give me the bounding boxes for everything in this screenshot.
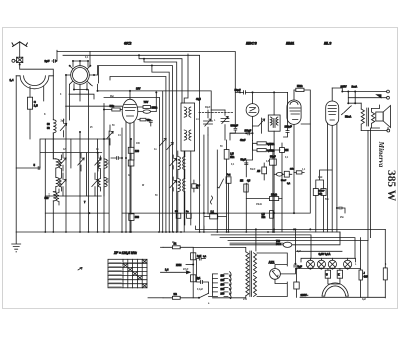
right rails down <box>368 128 371 240</box>
wire left rail <box>15 76 17 232</box>
stepped bus wires <box>274 232 340 240</box>
svg-text:1,5: 1,5 <box>34 104 38 108</box>
svg-text:2pF: 2pF <box>61 121 66 123</box>
band switch lever <box>218 179 224 188</box>
ground bus <box>16 231 274 233</box>
svg-text:0,1μF: 0,1μF <box>197 289 204 291</box>
svg-text:110: 110 <box>221 275 225 277</box>
svg-text:J: J <box>364 273 366 275</box>
coil secondary bumps <box>59 155 61 191</box>
svg-text:4,5: 4,5 <box>247 180 251 183</box>
small boxes row y=213 <box>176 213 181 218</box>
svg-text:Pot: Pot <box>227 174 231 177</box>
svg-text:1,4: 1,4 <box>10 78 14 82</box>
svg-text:125: 125 <box>221 280 226 282</box>
svg-text:EBC3: EBC3 <box>246 41 257 46</box>
svg-text:BlmA: BlmA <box>345 116 352 119</box>
cathode RC pair <box>276 173 282 177</box>
svg-text:3000: 3000 <box>59 179 61 185</box>
svg-text:6K2: 6K2 <box>124 41 132 46</box>
svg-text:8μF: 8μF <box>297 251 302 253</box>
svg-text:3: 3 <box>60 94 62 96</box>
svg-text:230V~: 230V~ <box>301 293 309 297</box>
IF transformer 2 <box>268 115 280 131</box>
heater wire <box>297 250 343 252</box>
lamp resistors <box>325 270 330 278</box>
EBC3 tube <box>246 104 259 117</box>
HT vertical <box>255 229 257 251</box>
resistor 15k <box>269 197 278 201</box>
svg-text:2mA: 2mA <box>352 84 358 88</box>
dial lamps <box>301 258 356 262</box>
svg-text:1kΩ: 1kΩ <box>318 177 323 179</box>
pointer a <box>78 268 82 271</box>
tuning gang section B <box>221 119 229 122</box>
svg-text:100pF: 100pF <box>285 126 293 129</box>
left mesh horizontals <box>16 139 109 168</box>
svg-text:ZF = 128,5 kHz: ZF = 128,5 kHz <box>113 251 137 255</box>
EL3 tube <box>326 101 339 125</box>
svg-text:L: L <box>355 264 357 266</box>
EM4 tube <box>287 100 301 124</box>
volume pot area <box>204 135 208 232</box>
svg-text:30: 30 <box>47 123 50 126</box>
svg-text:50pF: 50pF <box>241 160 247 162</box>
cap pair under T2 <box>117 157 119 160</box>
tuning gang capacitor <box>204 121 213 124</box>
svg-text:27μF: 27μF <box>183 269 189 271</box>
svg-text:385 W: 385 W <box>385 170 397 202</box>
svg-text:2Ω: 2Ω <box>174 293 177 296</box>
wire y=213 <box>89 124 310 213</box>
wire y=133 <box>230 118 262 140</box>
resistor on EM4 line <box>296 171 302 174</box>
svg-text:25n: 25n <box>340 217 345 219</box>
octode tube T1 <box>71 66 90 85</box>
alignment table <box>108 259 147 288</box>
cathode cap cluster <box>339 207 342 209</box>
wire antenna down/right <box>20 63 54 76</box>
svg-text:2M: 2M <box>285 149 288 152</box>
IF suppression filter <box>163 247 193 297</box>
svg-text:1,1: 1,1 <box>302 169 306 171</box>
svg-text:50: 50 <box>155 195 158 197</box>
svg-text:5MΩ: 5MΩ <box>297 85 302 88</box>
svg-text:L: L <box>214 120 216 122</box>
middle coil pair <box>104 159 107 169</box>
resistor 5M <box>296 88 304 91</box>
table X marks <box>123 259 147 288</box>
svg-text:100pF: 100pF <box>245 130 252 132</box>
svg-text:Minerva: Minerva <box>377 141 386 168</box>
svg-text:150: 150 <box>221 284 226 286</box>
svg-text:L1: L1 <box>196 119 199 121</box>
svg-text:W: W <box>142 185 145 187</box>
Minerva brand <box>377 141 386 168</box>
svg-text:1n: 1n <box>154 149 157 151</box>
svg-text:15kΩ: 15kΩ <box>271 193 277 196</box>
svg-text:U: U <box>326 275 328 277</box>
svg-text:5: 5 <box>34 163 36 167</box>
output wires <box>332 88 386 92</box>
boxes middle <box>128 147 134 153</box>
trimmers left mesh <box>60 158 66 165</box>
1k + 50n <box>313 189 318 196</box>
resistor 2M small <box>280 148 285 153</box>
svg-text:0,1: 0,1 <box>287 183 291 185</box>
svg-text:0,1: 0,1 <box>85 57 89 59</box>
svg-text:FSO: FSO <box>276 243 281 246</box>
svg-text:2000: 2000 <box>48 193 50 199</box>
svg-text:MΩ: MΩ <box>230 156 234 159</box>
svg-text:50n: 50n <box>325 199 330 201</box>
svg-text:15kΩ: 15kΩ <box>256 204 262 206</box>
svg-text:14: 14 <box>118 134 121 137</box>
tuning coil bank left <box>52 76 54 120</box>
switch BlmA <box>342 106 352 115</box>
wavy <box>211 196 213 204</box>
svg-text:220: 220 <box>221 289 226 291</box>
svg-text:1M: 1M <box>240 181 243 183</box>
svg-text:50nF: 50nF <box>250 169 256 171</box>
svg-text:25: 25 <box>90 127 93 129</box>
antenna terminal <box>12 59 15 62</box>
svg-text:0,1: 0,1 <box>231 164 235 166</box>
svg-text:1n: 1n <box>186 211 189 213</box>
385 W <box>385 170 397 202</box>
choke 780ohm <box>283 242 292 247</box>
resistors below EBC3 <box>257 142 266 145</box>
svg-text:30pF: 30pF <box>205 107 211 109</box>
svg-text:4: 4 <box>385 263 387 266</box>
speaker <box>376 112 383 121</box>
IF transformer 3 (second assembly) <box>178 157 181 170</box>
svg-text:Met: Met <box>110 95 114 98</box>
svg-text:ZF/H: ZF/H <box>176 264 182 267</box>
svg-text:300: 300 <box>135 216 140 219</box>
vertical coil labels <box>48 160 109 199</box>
svg-text:7: 7 <box>84 200 86 204</box>
svg-text:100: 100 <box>136 143 141 145</box>
svg-text:K: K <box>44 114 46 116</box>
mains switch <box>199 293 209 298</box>
svg-text:STOP: STOP <box>319 191 325 193</box>
misc small value labels <box>44 57 387 305</box>
resistor 4,5k <box>262 167 267 174</box>
svg-text:A5: A5 <box>257 170 261 173</box>
trimmer near coil <box>60 123 66 130</box>
dial arc <box>322 283 348 296</box>
svg-text:1,4: 1,4 <box>165 269 169 272</box>
svg-text:50: 50 <box>47 127 50 130</box>
power transformer <box>246 252 249 296</box>
antenna <box>12 42 27 47</box>
svg-text:16: 16 <box>96 149 99 151</box>
svg-text:4μF: 4μF <box>362 298 367 301</box>
pot boxes <box>226 177 231 184</box>
svg-text:18V: 18V <box>136 88 141 91</box>
svg-text:0,1: 0,1 <box>285 157 289 159</box>
svg-text:EL3: EL3 <box>324 41 332 46</box>
svg-text:2000: 2000 <box>107 160 109 166</box>
svg-text:50k: 50k <box>110 104 115 108</box>
svg-text:50pF: 50pF <box>235 88 241 92</box>
svg-text:240: 240 <box>221 292 226 295</box>
svg-text:MΩ: MΩ <box>262 217 266 219</box>
wire y=97.5 <box>104 97 159 99</box>
svg-text:50: 50 <box>112 125 115 127</box>
boxes at y 214 <box>210 214 218 219</box>
resistor 1,5M <box>224 150 229 160</box>
svg-text:AZ1: AZ1 <box>269 261 275 265</box>
svg-text:46,5: 46,5 <box>196 98 201 101</box>
loop antenna coil <box>20 76 49 89</box>
output transformer <box>360 103 362 109</box>
svg-text:100: 100 <box>135 150 140 153</box>
svg-text:G: G <box>128 175 130 177</box>
svg-text:0,1: 0,1 <box>203 256 207 258</box>
resistor 50k left of T2 <box>112 108 120 111</box>
svg-text:1,5: 1,5 <box>262 214 266 216</box>
svg-text:EM1: EM1 <box>286 41 295 46</box>
coil secondary bumps low <box>57 189 59 205</box>
wire y=90.9 <box>98 91 212 110</box>
svg-text:a: a <box>208 303 210 305</box>
svg-text:24V: 24V <box>243 298 248 301</box>
svg-text:70V: 70V <box>144 100 149 104</box>
rectifier AZ1 <box>270 269 281 280</box>
filter cap 8uF <box>294 265 297 267</box>
right PSU wiring <box>360 238 362 298</box>
middle trimmer caps <box>107 131 113 138</box>
svg-text:4k5: 4k5 <box>364 276 369 279</box>
mains voltage taps <box>213 274 229 297</box>
svg-text:265V: 265V <box>341 84 347 88</box>
left mesh verticals <box>45 104 109 233</box>
ground <box>12 232 21 252</box>
svg-text:k: k <box>197 188 199 190</box>
svg-text:2000: 2000 <box>59 161 61 167</box>
antenna lead-in coil <box>17 57 23 62</box>
svg-text:K: K <box>338 275 340 277</box>
svg-text:6,3V 0,1A: 6,3V 0,1A <box>319 252 331 256</box>
resistor 1,5k <box>27 97 32 109</box>
pentode tube T2 <box>122 99 138 123</box>
svg-text:MΩ: MΩ <box>319 193 323 195</box>
svg-text:2pF: 2pF <box>45 59 50 63</box>
loop stems <box>30 87 44 102</box>
cap 50nF EBC3 cathode <box>270 159 277 165</box>
IF transformer 1 <box>181 103 195 151</box>
svg-text:50: 50 <box>220 146 223 148</box>
svg-text:300pF: 300pF <box>231 124 239 128</box>
resistor 1,5k right of IFT3 <box>192 184 196 188</box>
cap 5 on left <box>38 167 40 170</box>
top bus wires <box>57 52 235 128</box>
middle coil mirror <box>98 156 100 191</box>
svg-text:40nF: 40nF <box>240 139 246 142</box>
T1 pin wires <box>66 75 98 232</box>
svg-text:8μF: 8μF <box>298 266 303 269</box>
svg-text:3000: 3000 <box>107 178 109 184</box>
